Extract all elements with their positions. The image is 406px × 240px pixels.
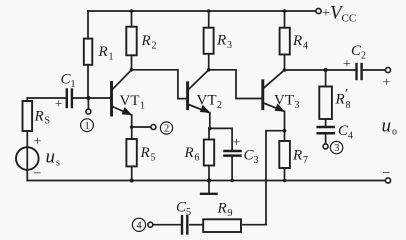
capacitor C3	[210, 128, 241, 182]
resistor R2	[126, 9, 136, 70]
svg-text:R: R	[98, 44, 108, 60]
svg-text:1: 1	[140, 101, 145, 112]
label node 2	[160, 122, 172, 134]
resistor R6	[204, 127, 214, 183]
resistor R5	[126, 127, 136, 183]
node 2 branch	[130, 125, 156, 130]
label R3	[216, 33, 232, 52]
svg-text:+: +	[55, 96, 62, 111]
svg-text:−: −	[34, 167, 42, 182]
svg-text:3: 3	[295, 100, 300, 111]
resistor R1	[84, 11, 93, 96]
svg-text:+: +	[383, 76, 391, 91]
wire bottom rail	[27, 180, 385, 182]
label R9	[217, 201, 233, 220]
wire feedback from VT3 emitter	[243, 131, 285, 225]
resistor R8'	[319, 68, 332, 126]
svg-text:u: u	[46, 147, 56, 168]
node 1 stub and terminal	[86, 98, 91, 114]
svg-text:3: 3	[334, 143, 339, 154]
transistor VT3	[263, 70, 285, 131]
svg-text:3: 3	[227, 40, 232, 51]
svg-text:o: o	[392, 127, 397, 138]
resistor R4	[280, 9, 290, 70]
node 4 terminal	[148, 222, 153, 227]
wire VT3 collector to R4 and output line	[283, 68, 355, 72]
svg-text:5: 5	[151, 153, 156, 164]
svg-text:R: R	[184, 145, 194, 161]
svg-text:+: +	[34, 135, 42, 150]
svg-text:2: 2	[164, 124, 169, 135]
capacitor C1	[67, 90, 89, 108]
output negative terminal	[385, 178, 390, 183]
label R8'	[335, 87, 351, 111]
svg-text:R: R	[292, 148, 302, 164]
svg-text:1: 1	[109, 52, 114, 63]
transistor VT2	[188, 70, 211, 129]
svg-text:R: R	[292, 33, 302, 49]
svg-text:4: 4	[303, 41, 308, 52]
svg-text:2: 2	[152, 41, 157, 52]
svg-text:s: s	[56, 158, 60, 169]
label R2	[141, 33, 157, 52]
label node 4	[132, 218, 145, 231]
node base VT1 junction	[86, 96, 90, 100]
label us	[34, 135, 61, 182]
label VT2	[197, 93, 223, 112]
label C2	[343, 43, 366, 72]
wire VT2 collector to R3 and coupling to VT3	[207, 68, 262, 99]
svg-text:+: +	[322, 6, 330, 21]
svg-text:R: R	[34, 109, 44, 125]
output positive terminal	[385, 67, 390, 72]
wire input to C1	[27, 97, 66, 99]
svg-text:CC: CC	[342, 13, 357, 25]
label R1	[98, 44, 114, 63]
source us	[16, 147, 39, 180]
svg-text:R: R	[335, 92, 345, 108]
svg-text:R: R	[141, 33, 151, 49]
svg-text:5: 5	[186, 207, 191, 218]
transistor VT1	[88, 70, 132, 127]
label +Vcc	[322, 3, 356, 25]
svg-text:S: S	[45, 116, 51, 127]
label C5	[176, 200, 191, 219]
svg-text:+: +	[343, 57, 351, 72]
svg-text:R: R	[140, 145, 150, 161]
resistor RS	[23, 98, 33, 147]
svg-text:2: 2	[217, 100, 222, 111]
svg-text:6: 6	[195, 153, 200, 164]
resistor R9	[190, 219, 241, 232]
svg-text:1: 1	[71, 79, 76, 90]
label node 1	[81, 119, 94, 132]
svg-text:−: −	[383, 166, 391, 181]
+Vcc terminal	[316, 8, 321, 13]
node 3 terminal	[323, 144, 328, 149]
label node 3	[330, 141, 342, 153]
svg-text:4: 4	[136, 221, 142, 232]
svg-text:VT: VT	[197, 93, 217, 109]
svg-text:VT: VT	[274, 93, 294, 109]
svg-text:u: u	[382, 116, 392, 137]
svg-text:R: R	[217, 201, 227, 217]
label C4	[338, 123, 353, 142]
svg-text:VT: VT	[120, 93, 140, 109]
svg-text:3: 3	[254, 155, 259, 166]
capacitor C5	[153, 216, 187, 233]
resistor R7	[279, 129, 290, 182]
label C1	[55, 72, 76, 111]
svg-text:9: 9	[228, 208, 233, 219]
wire VT1 collector to R2 and coupling	[130, 68, 187, 99]
capacitor C2	[357, 64, 386, 79]
label R4	[292, 33, 308, 52]
label R6	[184, 145, 200, 164]
label uo	[382, 116, 398, 138]
capacitor C4	[318, 127, 334, 144]
wire top supply rail	[88, 10, 316, 12]
resistor R3	[204, 9, 214, 70]
label C3	[233, 136, 259, 167]
svg-text:R: R	[216, 33, 226, 49]
label R5	[140, 145, 156, 164]
label VT1	[120, 93, 146, 112]
label R7	[292, 148, 308, 167]
svg-text:+: +	[233, 136, 241, 151]
svg-text:4: 4	[348, 131, 353, 142]
svg-text:1: 1	[85, 121, 90, 132]
svg-text:8: 8	[346, 100, 351, 111]
label RS	[34, 109, 51, 127]
svg-text:7: 7	[303, 155, 308, 166]
svg-text:2: 2	[361, 51, 366, 62]
label VT3	[274, 93, 300, 112]
ground	[201, 181, 217, 194]
